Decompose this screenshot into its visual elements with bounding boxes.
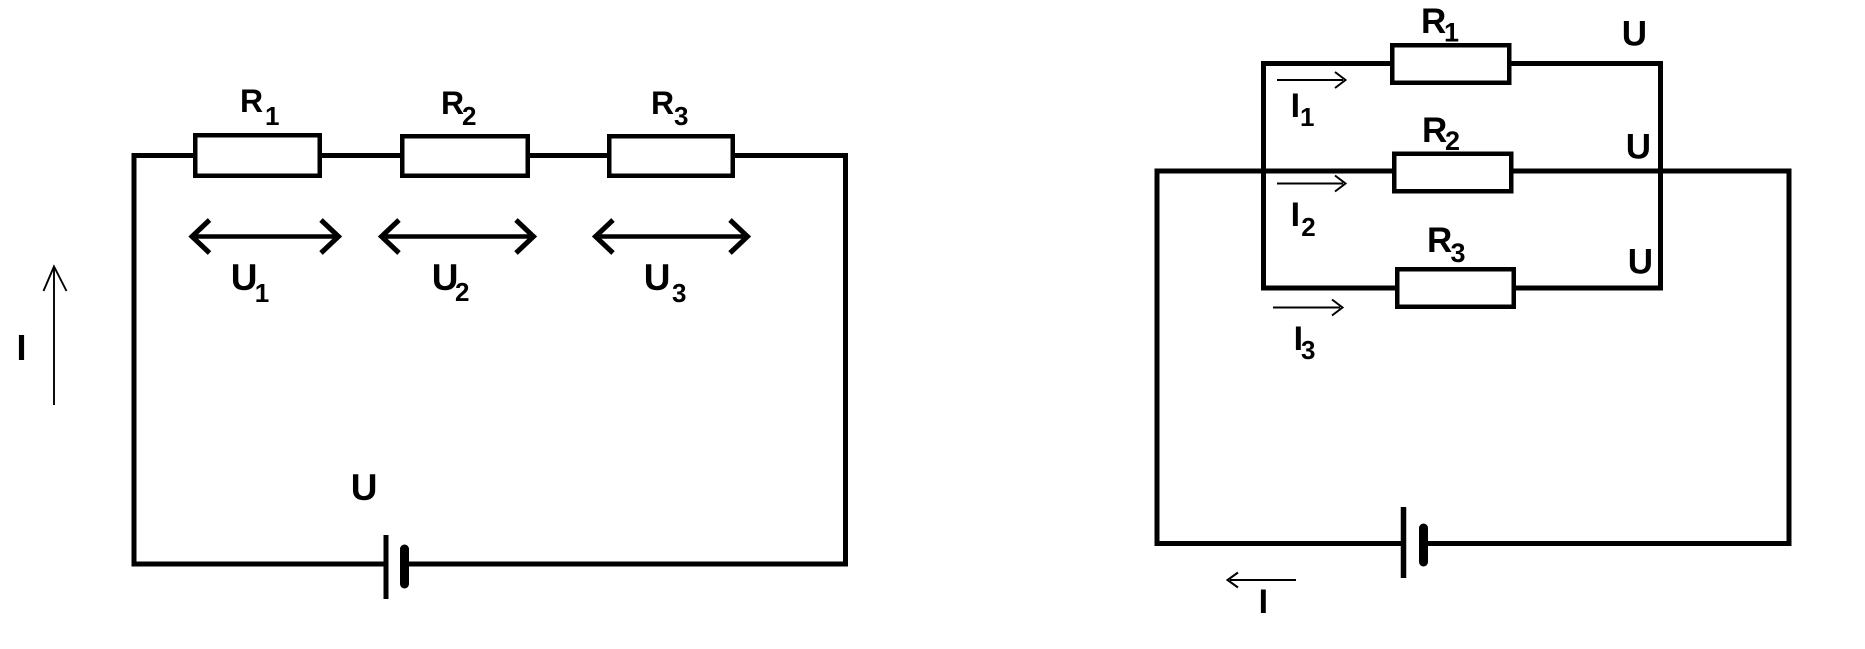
svg-text:I: I xyxy=(1259,583,1268,621)
label R2 (left circuit) xyxy=(441,85,476,131)
current arrow I1 xyxy=(1277,72,1346,88)
wire right-circuit inner right bus xyxy=(1658,61,1663,291)
label U1 xyxy=(231,257,269,308)
label R3 (left circuit) xyxy=(651,85,688,131)
svg-text:1: 1 xyxy=(255,278,269,308)
wire right-circuit bottom left segment xyxy=(1155,541,1404,546)
svg-text:U: U xyxy=(231,257,258,298)
label U3 xyxy=(644,257,687,308)
voltage arrow U1 (double-headed) xyxy=(192,220,339,253)
label R1 (right circuit) xyxy=(1421,2,1459,48)
svg-text:R: R xyxy=(651,85,674,121)
svg-text:2: 2 xyxy=(462,101,476,131)
svg-text:2: 2 xyxy=(1301,212,1315,242)
label R2 (right circuit) xyxy=(1422,111,1460,156)
svg-text:2: 2 xyxy=(455,277,469,307)
svg-text:R: R xyxy=(1422,111,1447,150)
resistor R3 (left circuit) xyxy=(609,136,733,176)
battery short plate (left circuit) xyxy=(400,549,409,584)
label R1 (left circuit) xyxy=(240,83,279,131)
current arrow I (right circuit, left) xyxy=(1228,573,1297,588)
svg-text:3: 3 xyxy=(674,101,688,131)
current arrow I (left circuit, up) xyxy=(44,267,67,406)
wire right-circuit middle branch xyxy=(1157,169,1789,174)
svg-text:1: 1 xyxy=(1300,102,1314,132)
current arrow I3 xyxy=(1273,300,1343,316)
voltage arrow U2 (double-headed) xyxy=(382,220,534,253)
svg-text:U: U xyxy=(1626,128,1651,167)
wire right-circuit outer left vertical xyxy=(1155,169,1160,547)
resistor R3 (right circuit) xyxy=(1397,269,1514,307)
wire right-circuit bottom branch xyxy=(1261,286,1663,291)
battery short plate (right circuit) xyxy=(1419,528,1428,562)
wire right-circuit inner left bus xyxy=(1261,61,1266,291)
battery long plate (right circuit) xyxy=(1401,507,1407,578)
wire right-circuit bottom right segment xyxy=(1421,541,1792,546)
svg-text:3: 3 xyxy=(1451,238,1466,268)
battery long plate (left circuit) xyxy=(384,535,389,599)
svg-text:R: R xyxy=(240,83,263,119)
svg-text:U: U xyxy=(644,257,671,298)
svg-text:1: 1 xyxy=(1444,18,1459,48)
wire left-circuit right vertical xyxy=(843,153,848,567)
svg-text:R: R xyxy=(441,85,464,121)
svg-text:I: I xyxy=(1291,87,1300,125)
wire left-circuit left vertical xyxy=(132,153,137,567)
svg-text:U: U xyxy=(1622,15,1647,54)
label I3 xyxy=(1294,320,1316,365)
label R3 (right circuit) xyxy=(1427,221,1466,268)
svg-text:R: R xyxy=(1427,221,1452,260)
svg-text:U: U xyxy=(351,467,378,508)
label I2 xyxy=(1291,196,1316,242)
svg-text:I: I xyxy=(17,327,27,368)
wire left-circuit top xyxy=(134,153,846,158)
svg-text:2: 2 xyxy=(1445,126,1460,156)
svg-text:3: 3 xyxy=(672,278,686,308)
voltage arrow U3 (double-headed) xyxy=(596,220,748,253)
wire left-circuit bottom right segment xyxy=(405,562,849,567)
resistor R1 (right circuit) xyxy=(1392,45,1509,83)
wire right-circuit top branch xyxy=(1261,61,1663,66)
wire right-circuit outer right vertical xyxy=(1787,169,1792,547)
svg-text:1: 1 xyxy=(265,101,279,131)
svg-text:I: I xyxy=(1291,196,1300,234)
svg-text:3: 3 xyxy=(1301,335,1315,365)
resistor R2 (left circuit) xyxy=(402,136,528,176)
label I1 xyxy=(1291,87,1315,132)
svg-text:R: R xyxy=(1421,2,1446,41)
current arrow I2 xyxy=(1277,176,1346,192)
resistor R1 (left circuit) xyxy=(195,135,320,176)
wire left-circuit bottom left segment xyxy=(132,562,387,567)
resistor R2 (right circuit) xyxy=(1394,154,1511,192)
svg-text:U: U xyxy=(1628,243,1653,282)
label U2 xyxy=(432,257,470,307)
